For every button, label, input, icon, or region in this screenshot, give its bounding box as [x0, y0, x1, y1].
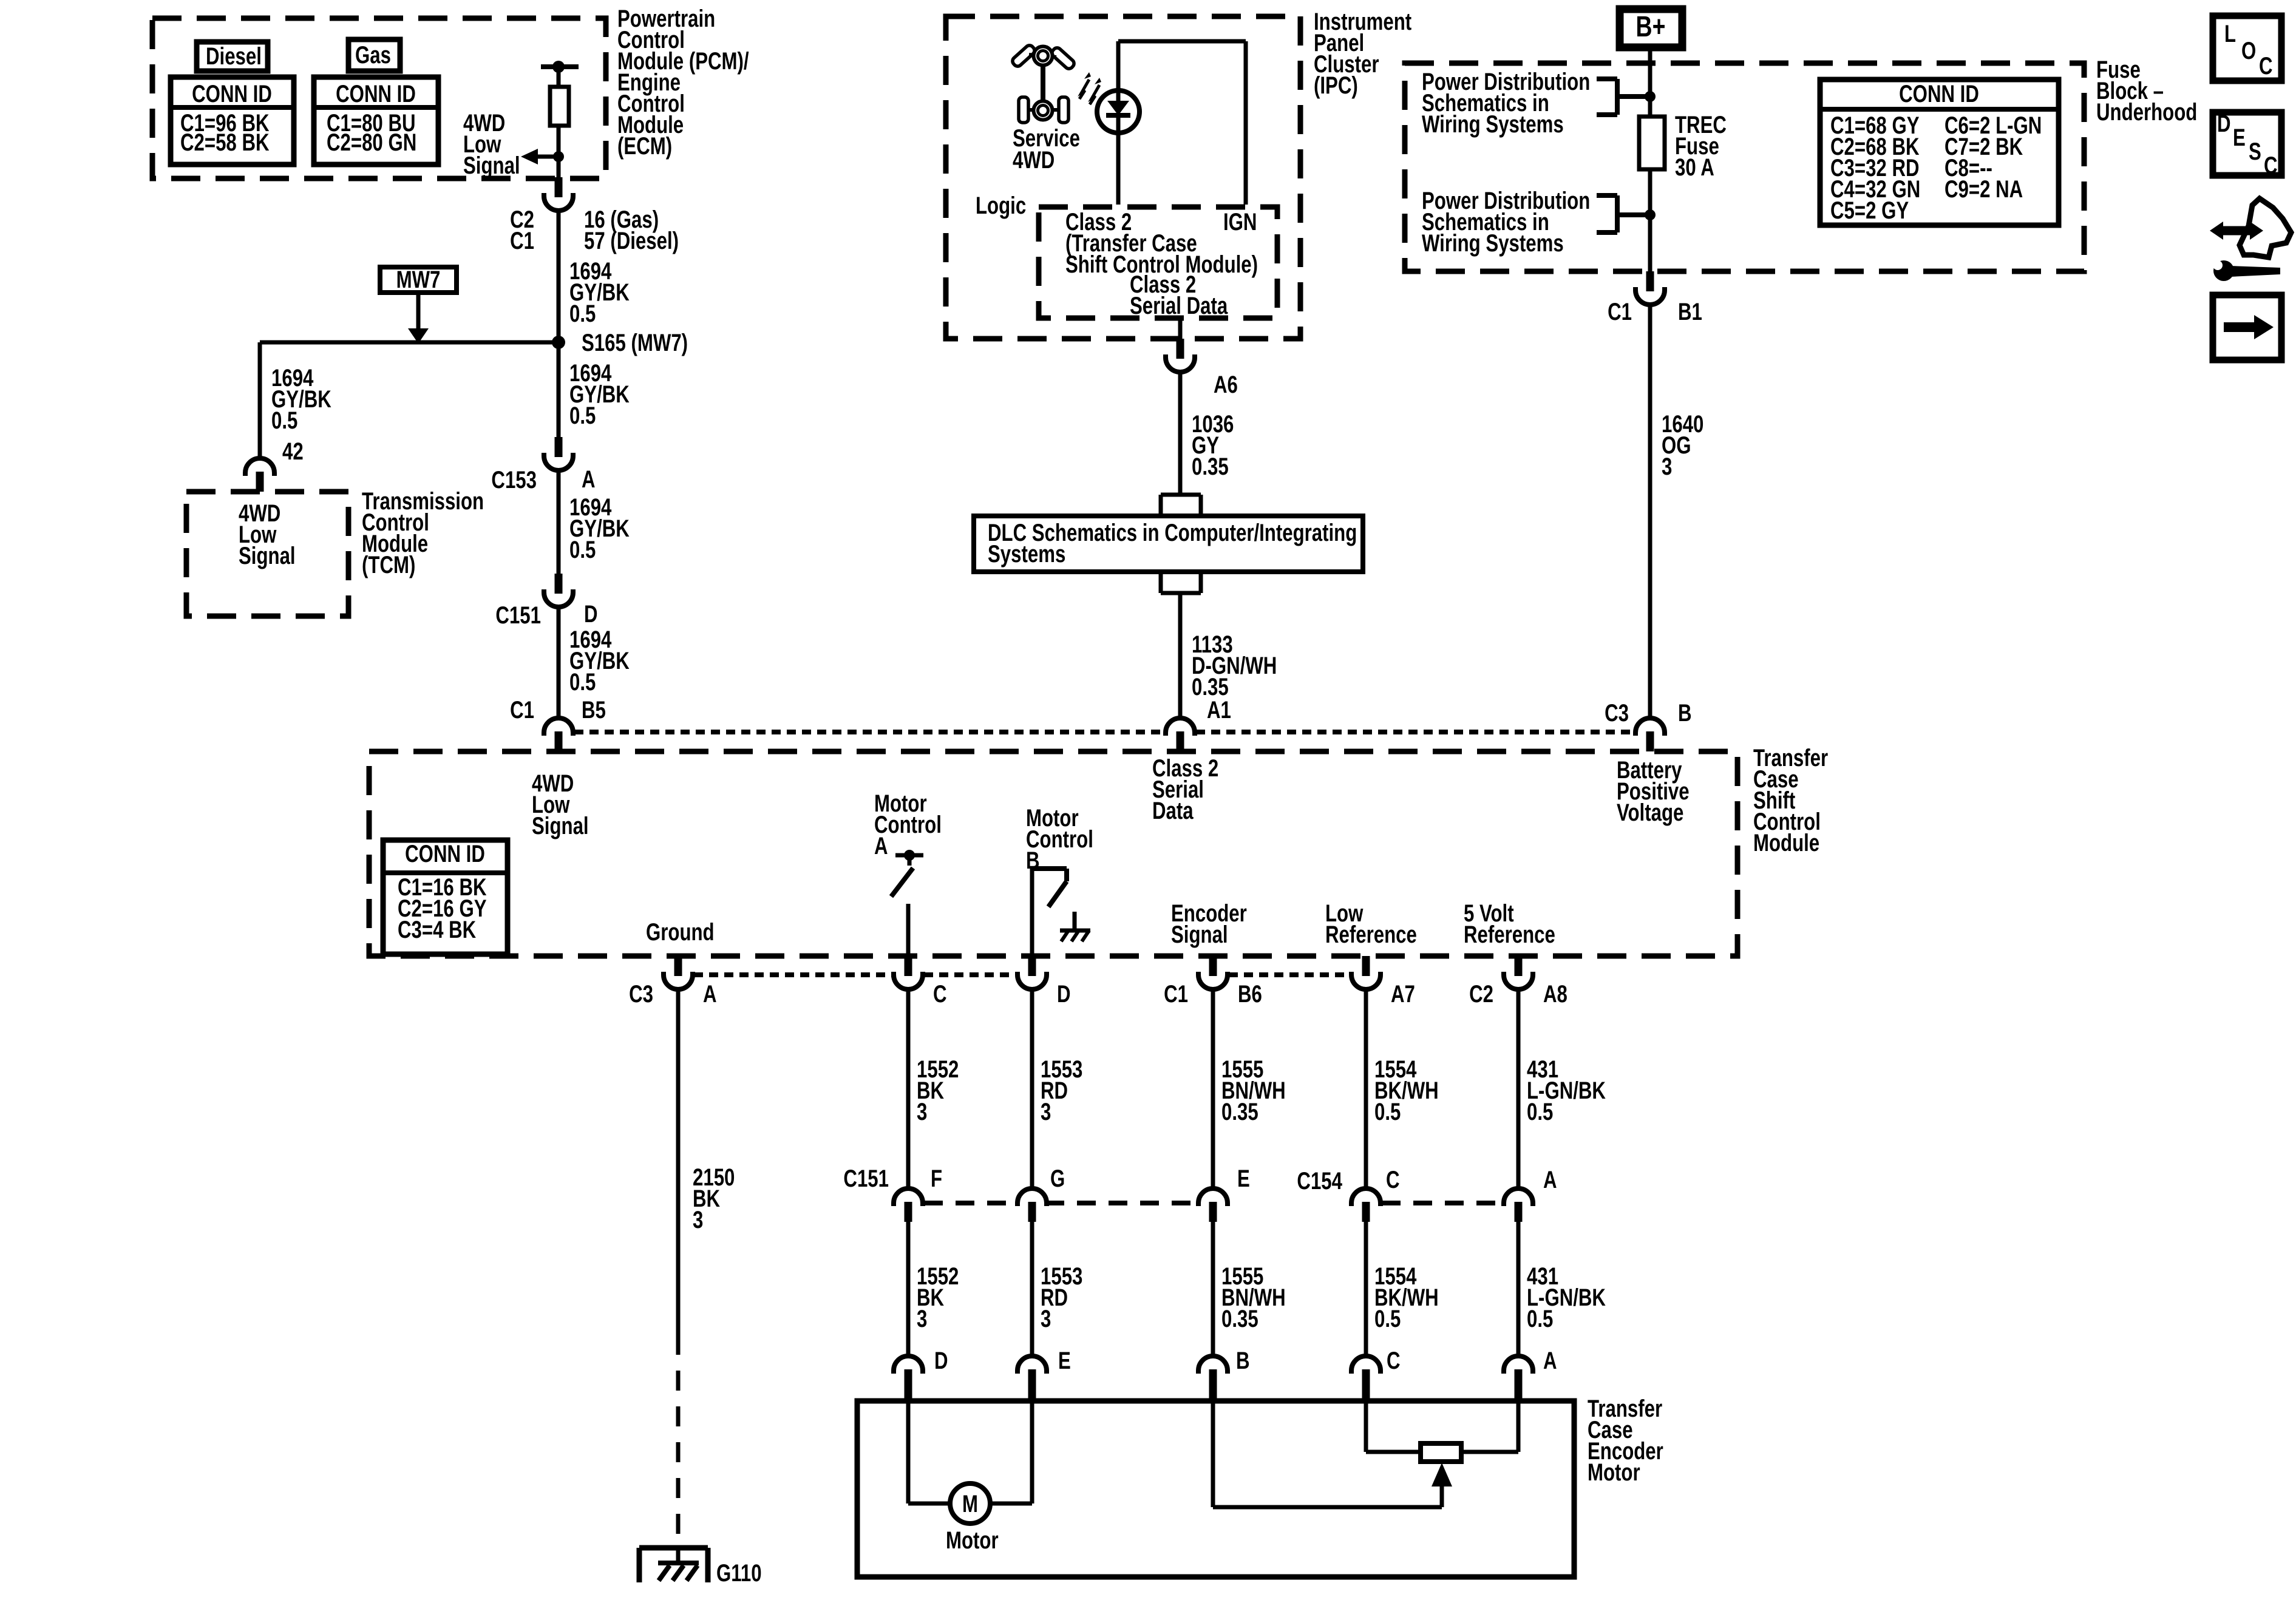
- svg-text:F: F: [931, 1165, 942, 1192]
- svg-text:Reference: Reference: [1464, 921, 1555, 948]
- connector C153/A inline: [555, 437, 563, 457]
- svg-text:C1: C1: [510, 227, 534, 254]
- svg-text:0.5: 0.5: [1374, 1098, 1401, 1125]
- CONN ID table fuse block: [1820, 80, 2059, 225]
- svg-text:S: S: [2249, 138, 2261, 165]
- wire 1552 BK upper (motor control A): [906, 989, 911, 1187]
- svg-text:(ECM): (ECM): [617, 132, 672, 160]
- svg-text:Logic: Logic: [976, 192, 1026, 219]
- wire 1694 GY/BK mid: [557, 470, 561, 574]
- svg-text:Signal: Signal: [532, 812, 589, 839]
- connector ground C3/A at TCSCM bottom: [674, 956, 682, 976]
- svg-text:B6: B6: [1238, 980, 1262, 1008]
- wire 2150 BK ground: [676, 989, 681, 1335]
- svg-text:E: E: [1237, 1165, 1250, 1192]
- icon Service 4WD vehicle: [1011, 44, 1076, 123]
- svg-text:D: D: [2217, 110, 2231, 137]
- svg-text:CONN ID: CONN ID: [1899, 80, 1979, 107]
- svg-text:0.35: 0.35: [1221, 1098, 1258, 1125]
- connector 5 volt reference C2/A8 at TCSCM bottom: [1515, 956, 1523, 976]
- svg-text:3: 3: [1662, 453, 1672, 480]
- resistor (PCM internal): [550, 87, 569, 126]
- wire fuse to lower junction: [1648, 169, 1652, 271]
- svg-text:(TCM): (TCM): [362, 551, 415, 578]
- svg-text:B5: B5: [582, 696, 606, 724]
- svg-text:IGN: IGN: [1223, 208, 1257, 236]
- wire 1554 BK/WH upper (low reference): [1364, 989, 1368, 1187]
- svg-text:C2=80 GN: C2=80 GN: [327, 129, 416, 156]
- indicator lamp emission arrows: [1079, 80, 1089, 99]
- wire 1553 RD lower (motor control B): [1030, 1222, 1034, 1356]
- svg-text:Systems: Systems: [988, 540, 1065, 568]
- svg-text:3: 3: [693, 1206, 703, 1233]
- encoder wiper arrow: [1440, 1485, 1444, 1507]
- legend DESC box: [2213, 112, 2281, 175]
- connector C2/C1 at PCM: [555, 177, 563, 197]
- wire lamp to logic box: [1116, 41, 1121, 90]
- svg-text:A: A: [874, 832, 888, 859]
- wire 1036 GY: [1178, 372, 1183, 495]
- svg-text:O: O: [2241, 37, 2256, 64]
- module Transfer Case Encoder Motor box: [857, 1401, 1574, 1577]
- MW7 arrow: [416, 293, 421, 330]
- svg-text:Wiring Systems: Wiring Systems: [1422, 229, 1564, 257]
- svg-text:D: D: [934, 1347, 948, 1374]
- connector encoder signal C1/B6 at TCSCM bottom: [1209, 956, 1217, 976]
- Gas CONN ID table: [314, 77, 438, 164]
- connector C151/D inline: [555, 574, 563, 594]
- svg-text:B1: B1: [1678, 298, 1702, 325]
- svg-text:B: B: [1678, 699, 1692, 727]
- svg-text:C5=2 GY: C5=2 GY: [1830, 197, 1909, 224]
- wire 1694 GY/BK from PCM: [557, 211, 561, 437]
- connector low reference A7 at TCSCM bottom: [1362, 956, 1370, 976]
- svg-text:C9=2 NA: C9=2 NA: [1944, 175, 2023, 203]
- connector C154 C inline: [1362, 1202, 1370, 1222]
- wire 1553 RD upper (motor control B): [1030, 989, 1034, 1187]
- svg-text:3: 3: [1041, 1098, 1051, 1125]
- svg-text:Wiring Systems: Wiring Systems: [1422, 110, 1564, 138]
- svg-text:0.5: 0.5: [1374, 1305, 1401, 1332]
- connector A at encoder motor: [1515, 1369, 1523, 1401]
- bracket lower power distribution: [1597, 193, 1617, 198]
- svg-text:C3: C3: [1605, 699, 1629, 727]
- connector motor control B pin D at TCSCM bottom: [1028, 956, 1036, 976]
- svg-text:0.35: 0.35: [1221, 1305, 1258, 1332]
- svg-text:C3=4 BK: C3=4 BK: [398, 916, 476, 943]
- svg-text:Motor: Motor: [946, 1527, 999, 1554]
- svg-text:Signal: Signal: [1171, 921, 1228, 948]
- svg-text:0.5: 0.5: [1527, 1305, 1553, 1332]
- svg-text:S165 (MW7): S165 (MW7): [582, 329, 688, 356]
- module TCM dashed box: [186, 492, 348, 616]
- svg-text:M: M: [962, 1490, 978, 1517]
- switch Motor Control B: [1032, 866, 1067, 871]
- module Transfer Case Shift Control Module dashed box: [369, 751, 1737, 956]
- dashed harness row C151/C154: [924, 1201, 1016, 1205]
- wire 1555 BN/WH lower (encoder signal): [1211, 1222, 1215, 1356]
- connector C1/B1 below fuse block: [1646, 271, 1654, 291]
- svg-text:Module: Module: [1753, 829, 1819, 856]
- svg-text:Signal: Signal: [463, 152, 520, 179]
- connector 42 at TCM: [256, 472, 264, 492]
- connector C151 F inline: [905, 1202, 912, 1222]
- CONN ID table TCSCM: [383, 840, 508, 954]
- svg-text:C1: C1: [1164, 980, 1188, 1008]
- svg-text:E: E: [1058, 1347, 1071, 1374]
- bracket from DLC box bottom: [1159, 571, 1163, 593]
- fuse TREC 30A: [1639, 117, 1665, 169]
- svg-text:G: G: [1050, 1165, 1065, 1192]
- logic dashed box: [1039, 207, 1277, 318]
- svg-text:(IPC): (IPC): [1314, 72, 1358, 99]
- wire 431 L-GN/BK upper (5 volt reference): [1517, 989, 1521, 1187]
- wire encoder feed: [1211, 1401, 1215, 1507]
- svg-text:C3: C3: [629, 980, 653, 1008]
- wire 431 L-GN/BK lower (5 volt reference): [1517, 1222, 1521, 1356]
- svg-text:E: E: [2233, 124, 2246, 151]
- connector motor control A pin C at TCSCM bottom: [905, 956, 912, 976]
- wire 1554 BK/WH lower (low reference): [1364, 1222, 1368, 1356]
- svg-text:C: C: [2259, 52, 2273, 80]
- svg-text:C2: C2: [1469, 980, 1493, 1008]
- svg-text:0.5: 0.5: [569, 668, 596, 696]
- connector C at encoder motor: [1362, 1369, 1370, 1401]
- svg-text:3: 3: [917, 1098, 927, 1125]
- wire logic to IPC edge: [1178, 318, 1183, 339]
- svg-text:Diesel: Diesel: [206, 42, 262, 70]
- wire 1694 GY/BK lower: [557, 607, 561, 718]
- svg-text:A: A: [703, 980, 717, 1008]
- dotted harness row at TCSCM bottom: [694, 972, 892, 977]
- svg-text:C1: C1: [1608, 298, 1632, 325]
- indicator lamp Service 4WD: [1097, 90, 1140, 133]
- svg-text:D: D: [1057, 980, 1071, 1008]
- svg-text:0.5: 0.5: [1527, 1098, 1553, 1125]
- chassis ground at switch B: [1073, 912, 1077, 931]
- Diesel CONN ID table: [171, 77, 294, 164]
- svg-text:4WD: 4WD: [1013, 146, 1055, 174]
- svg-text:CONN ID: CONN ID: [405, 840, 485, 867]
- svg-text:C: C: [1386, 1166, 1400, 1193]
- svg-text:C1: C1: [510, 696, 534, 724]
- module IPC dashed box: [946, 16, 1300, 339]
- bracket to DLC box top: [1161, 493, 1201, 497]
- resistor top bar with junction: [541, 64, 579, 69]
- connector C1/B5 at TCSCM: [555, 731, 563, 751]
- module Fuse Block - Underhood dashed box: [1405, 63, 2084, 271]
- splice S165 (MW7): [552, 336, 565, 349]
- Gas label box: [348, 39, 400, 71]
- svg-text:C: C: [1387, 1347, 1401, 1374]
- svg-text:0.5: 0.5: [271, 407, 297, 434]
- connector E at encoder motor: [1028, 1369, 1036, 1401]
- svg-text:A8: A8: [1543, 980, 1567, 1008]
- wire 1552 BK lower (motor control A): [906, 1222, 911, 1356]
- svg-text:Gas: Gas: [355, 41, 391, 69]
- legend forward arrow box: [2213, 295, 2281, 360]
- svg-text:3: 3: [917, 1305, 927, 1332]
- wire 1133 D-GN/WH: [1178, 593, 1183, 718]
- encoder potentiometer: [1364, 1401, 1368, 1452]
- wire 1555 BN/WH upper (encoder signal): [1211, 989, 1215, 1187]
- connector C154 A inline: [1515, 1202, 1523, 1222]
- connector C3/B at TCSCM: [1646, 731, 1654, 751]
- svg-text:Reference: Reference: [1325, 921, 1417, 948]
- svg-text:C151: C151: [843, 1165, 889, 1192]
- wire 1640 OG: [1648, 305, 1652, 718]
- svg-text:MW7: MW7: [396, 266, 441, 293]
- svg-text:30 A: 30 A: [1675, 154, 1714, 181]
- connector D at encoder motor: [905, 1369, 912, 1401]
- module PCM/ECM dashed box: [152, 18, 606, 178]
- svg-text:CONN ID: CONN ID: [192, 80, 272, 107]
- 4WD Low Signal arrow: [521, 149, 538, 164]
- junction dot lower: [1645, 209, 1656, 220]
- svg-text:0.5: 0.5: [569, 300, 596, 327]
- svg-text:A1: A1: [1207, 696, 1231, 724]
- svg-text:Voltage: Voltage: [1617, 799, 1683, 826]
- connector C154 E inline: [1209, 1202, 1217, 1222]
- svg-text:Signal: Signal: [239, 542, 296, 569]
- power symbol B+: [1620, 9, 1682, 47]
- svg-text:A: A: [1543, 1166, 1557, 1193]
- motor M: [950, 1483, 990, 1524]
- svg-text:0.5: 0.5: [569, 402, 596, 429]
- MW7 box: [380, 267, 457, 293]
- svg-text:57 (Diesel): 57 (Diesel): [584, 227, 679, 254]
- svg-text:B: B: [1236, 1347, 1250, 1374]
- svg-text:C153: C153: [491, 466, 537, 493]
- switch Motor Control A: [904, 850, 915, 861]
- svg-text:Underhood: Underhood: [2096, 98, 2197, 126]
- wire B+ to fuse: [1648, 51, 1652, 117]
- svg-text:C151: C151: [495, 602, 541, 629]
- svg-text:A: A: [1543, 1347, 1557, 1374]
- ground G110: [639, 1545, 708, 1551]
- svg-text:L: L: [2224, 20, 2236, 47]
- svg-text:0.5: 0.5: [569, 536, 596, 563]
- svg-text:0.35: 0.35: [1192, 453, 1229, 480]
- Diesel label box: [197, 42, 268, 71]
- svg-text:42: 42: [282, 438, 304, 465]
- legend LOC box: [2213, 16, 2281, 81]
- wire branch to TCM: [260, 341, 559, 345]
- svg-text:Ground: Ground: [646, 918, 715, 946]
- connector A1 at TCSCM: [1177, 731, 1184, 751]
- bracket upper power distribution: [1597, 76, 1617, 81]
- DLC schematics box: [974, 516, 1363, 572]
- connector B at encoder motor: [1209, 1369, 1217, 1401]
- wire motor leads: [906, 1401, 911, 1503]
- svg-text:Motor: Motor: [1588, 1459, 1640, 1486]
- svg-text:C2=58 BK: C2=58 BK: [180, 129, 270, 156]
- wire resistor to PCM edge: [557, 67, 561, 87]
- junction dot upper: [1645, 91, 1656, 102]
- svg-text:Serial Data: Serial Data: [1130, 292, 1228, 319]
- svg-text:CONN ID: CONN ID: [336, 80, 416, 107]
- svg-text:3: 3: [1041, 1305, 1051, 1332]
- connector C151 G inline: [1028, 1202, 1036, 1222]
- svg-text:Data: Data: [1152, 797, 1194, 824]
- svg-text:A7: A7: [1391, 980, 1415, 1008]
- svg-text:G110: G110: [716, 1559, 762, 1587]
- svg-text:A: A: [582, 466, 596, 493]
- svg-text:D: D: [584, 600, 598, 628]
- connector A6 below IPC: [1177, 339, 1184, 359]
- svg-text:B+: B+: [1636, 11, 1666, 44]
- svg-text:C: C: [933, 980, 947, 1008]
- dotted net 4WD Low Signal / Class 2 row: [574, 730, 1164, 734]
- legend navigation wrench icon: [2223, 226, 2250, 236]
- svg-text:C: C: [2264, 152, 2278, 179]
- svg-text:A6: A6: [1214, 371, 1238, 398]
- svg-text:C154: C154: [1297, 1167, 1342, 1195]
